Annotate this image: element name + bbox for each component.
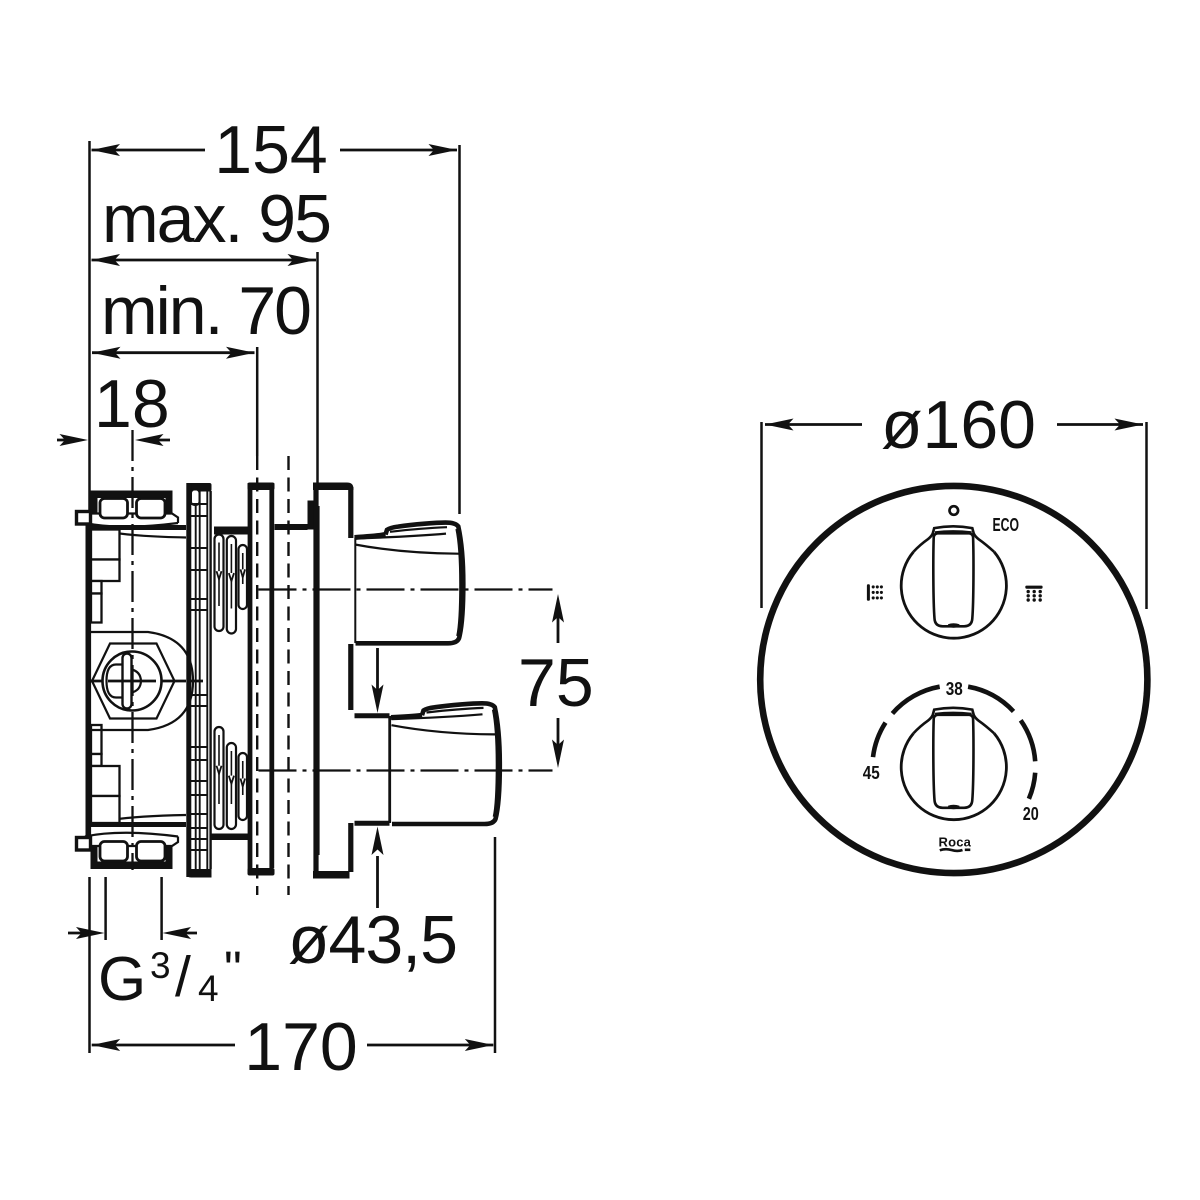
leader line d43,5 — [372, 648, 384, 908]
dimension 18 arrows (outside) — [57, 434, 170, 446]
svg-text:ECO: ECO — [993, 514, 1020, 535]
valve body left edge — [86, 524, 92, 841]
side port boss (D shape) — [90, 632, 194, 730]
bottom knob (temperature) side profile — [391, 703, 500, 824]
svg-text:G: G — [98, 945, 146, 1014]
svg-text:ø160: ø160 — [881, 387, 1036, 463]
svg-text:max. 95: max. 95 — [102, 181, 330, 257]
side port hexagon — [92, 644, 175, 719]
extension line left of d160 — [760, 422, 763, 608]
bottom knob front: grip hump — [914, 708, 995, 734]
bottom knob centerline — [259, 769, 553, 771]
svg-text:3: 3 — [150, 945, 171, 986]
top hex nut G3/4 — [85, 491, 178, 527]
extension line left (x=89.5) — [88, 141, 91, 521]
dimension 75 vertical line + arrows — [552, 594, 564, 768]
G3/4 extension lines — [104, 877, 107, 940]
port horizontal centerline — [88, 680, 203, 683]
bottom knob cylinder (d43.5) — [355, 716, 390, 824]
extension line right of min.70 (x=257.2 solid upper part) — [256, 347, 259, 456]
bracket plate top slot — [191, 490, 200, 506]
wall mounting plate — [248, 483, 275, 876]
temperature scale arc segments — [873, 687, 1035, 799]
top knob front: lever plate — [933, 533, 973, 626]
mounting bracket plate — [187, 483, 212, 878]
valve body top edge — [86, 525, 186, 530]
bottom knob front: bottom notch — [948, 805, 960, 809]
top knob front: grip hump — [914, 526, 995, 552]
valve body top face curve — [95, 530, 186, 538]
svg-text:38: 38 — [946, 678, 963, 699]
side port circle — [103, 652, 162, 711]
dashed wall plane line 1 (x=257.2) — [256, 456, 258, 895]
rosette front circle d160 — [760, 486, 1147, 873]
svg-text:Roca: Roca — [939, 835, 972, 850]
dimension max.95 line — [92, 254, 317, 266]
valve body bottom face curve — [95, 815, 186, 822]
svg-text:": " — [224, 941, 242, 997]
extension line left for 170 — [88, 877, 91, 1053]
port inner left slot — [107, 665, 123, 698]
svg-text:45: 45 — [863, 762, 880, 783]
bottom knob front: cap bottom line — [935, 713, 972, 714]
extension line right of d160 — [1145, 422, 1148, 609]
slotted strip bottom bar — [212, 834, 253, 841]
slot capsules top group — [215, 535, 248, 634]
dimension min.70 line — [92, 347, 255, 359]
port inner right lobe — [132, 670, 142, 693]
extension line right of 154 (x=459.5) — [458, 145, 461, 514]
dashed wall plane line 2 (x=288.5) — [287, 456, 289, 895]
dimension 170 line — [92, 1039, 494, 1051]
bottom hex nut G3/4 — [85, 833, 178, 869]
top knob (flow control) side profile — [355, 523, 464, 644]
top knob front: base circle — [901, 552, 1006, 638]
rosette escutcheon — [313, 483, 354, 879]
valve body bottom edge — [86, 822, 186, 827]
head shower icon — [1025, 586, 1042, 602]
svg-text:170: 170 — [244, 1009, 357, 1085]
top knob front: cap bottom line — [935, 531, 972, 532]
dimension d160 line — [765, 419, 1143, 431]
bracket plate rungs — [191, 504, 207, 850]
top nut collar left ear — [77, 512, 91, 525]
slotted adjustment strip top bar — [214, 527, 252, 535]
top knob front: bottom notch — [948, 623, 960, 627]
dimension 154 line — [92, 144, 458, 156]
sleeve top bar — [275, 524, 308, 530]
svg-text:min. 70: min. 70 — [101, 273, 310, 349]
svg-text:20: 20 — [1023, 803, 1039, 824]
svg-text:4: 4 — [198, 968, 219, 1009]
bottom knob front: lever plate — [933, 715, 973, 808]
hex nut axis centerline x=132.5 — [131, 430, 133, 870]
svg-text:ø43,5: ø43,5 — [288, 902, 457, 978]
svg-text:75: 75 — [518, 645, 594, 721]
top knob position marker circle — [950, 506, 959, 515]
bottom knob front: base circle — [901, 733, 1006, 819]
top knob centerline — [259, 588, 553, 590]
G3/4 arrows (outside) — [68, 927, 197, 939]
bottom nut collar left ear — [77, 838, 91, 851]
hand shower icon — [867, 584, 883, 601]
rosette top-left step — [308, 501, 315, 530]
extension line right of max.95 (x=317.5) — [316, 252, 319, 486]
body left side stacked bosses — [91, 530, 120, 824]
extension line right for 170 (x=495) — [494, 837, 497, 1053]
slot capsules bottom group — [215, 727, 248, 829]
svg-text:/: / — [175, 945, 191, 1009]
port inner capsule — [123, 654, 132, 709]
svg-text:154: 154 — [214, 112, 327, 188]
